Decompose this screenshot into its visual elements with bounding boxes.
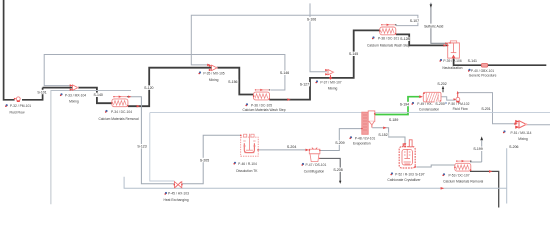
wire S-123 from DC-104 top down to heat exchanger HX-103 [128,97,175,184]
svg-text:Heat Exchanging: Heat Exchanging [163,198,188,202]
svg-text:Calcium Materials Wash Step: Calcium Materials Wash Step [242,108,285,112]
label DC-104 [98,110,138,121]
wire S-202 vent stub above condenser [442,87,444,93]
wire DC-107 bottom outlet down to bottom edge [470,171,499,207]
wire S-146 recycle from DC-105 top to mixer P-33 [44,55,285,91]
node S-123 [137,144,148,149]
label V-106 [439,59,462,70]
svg-text:Condensation: Condensation [419,108,440,112]
label HX-101 condenser [411,102,439,112]
label HX-103 [163,192,189,202]
wire mixer P-51 outlet to right edge [526,124,550,126]
label mixer P-33 [60,93,86,103]
mixer P-37 / MX-107 [325,69,334,80]
label R-103 [387,172,421,182]
wire pump P-32 outlet to node S-101 riser [22,88,43,100]
arrow DC-107 bottom outlet [489,170,492,173]
svg-text:S-197: S-197 [415,173,424,177]
arrow S-127 leaving DC-105 [287,98,290,101]
wire pale section line left drop to HX-103 [150,113,175,181]
condenser HX-101 (P-49) [423,92,441,102]
filter DC-101 (P-38) [379,24,396,35]
svg-text:S-120: S-120 [144,86,153,90]
arrow on S-206 bottom return line [441,187,445,190]
node S-199 [473,147,484,152]
pump P-50 top outlet stub [457,93,459,98]
node S-145 [348,52,359,57]
arrow S-204 into centrifuge [306,149,309,152]
mixer P-51 / MX-114 [515,120,527,129]
arrow into R-103 top from S-152 [404,143,407,146]
svg-text:Generic Procedure: Generic Procedure [469,74,497,78]
svg-text:P-50 / PM-102: P-50 / PM-102 [448,102,469,106]
wire feed stream into pump P-32 [4,0,15,100]
small box GBX-101 (P-40) [481,64,487,68]
label mixer P-35 [198,71,224,82]
mixer P-35 / MX-105 [209,65,218,72]
svg-text:Fluid Flow: Fluid Flow [9,111,25,115]
svg-text:S-145: S-145 [349,52,358,56]
wire S-205 from HX-103 up to dissolution tank R-104 [182,135,241,184]
svg-text:Sulfuric Acid: Sulfuric Acid [424,24,443,28]
svg-text:P-35 / MX-105: P-35 / MX-105 [203,72,224,76]
wire R-103 outlet S-197 to DC-107 [416,165,454,167]
node S-205 [199,158,210,163]
node S-141 [467,59,478,64]
svg-text:P-38 / DC-101: P-38 / DC-101 [378,37,399,41]
svg-text:Centrifugation: Centrifugation [304,170,325,174]
wire S-201 from pump P-50 to mixer P-51 [458,93,517,124]
wire S-206 long return line along bottom [124,148,507,203]
svg-text:S-106: S-106 [307,18,316,22]
wire S-106 feed from top into mixer P-37 [310,3,327,71]
svg-text:S-204: S-204 [287,145,296,149]
node S-202 [437,82,448,87]
wire S-208 from centrifuge DS-101 down [320,158,340,181]
filter DC-107 (P-53) [454,160,471,171]
label EV-101 [349,136,375,145]
svg-text:P-33 / MX-104: P-33 / MX-104 [65,93,86,97]
label GBX-101 [468,69,497,78]
svg-text:Cathionate Crystallizer: Cathionate Crystallizer [387,178,421,182]
svg-text:Evaporation: Evaporation [353,142,371,146]
svg-text:S-141: S-141 [468,59,477,63]
svg-text:Calcium Materials Removal: Calcium Materials Removal [98,117,138,121]
node S-206 [508,144,519,149]
svg-text:Mixing: Mixing [328,86,338,90]
svg-text:S-202: S-202 [437,82,446,86]
wire S-107 recycle from DC-101 top to mixer P-35 [191,15,418,65]
svg-text:S-200: S-200 [435,102,444,106]
svg-text:S-208: S-208 [333,168,342,172]
arrow S-199 pointing up [480,136,483,140]
svg-text:P-48 / EV-101: P-48 / EV-101 [355,136,376,140]
wire S-204 from R-104 to centrifuge DS-101 [258,149,306,151]
filter DC-104 (P-34) [111,96,128,107]
node S-152 [378,132,389,137]
arrow S-202 pointing up [442,86,444,89]
label DC-105 [242,103,285,112]
wire pale stub from mixer P-33 down to bottom edge [51,91,131,205]
svg-text:P-40 / GBX-101: P-40 / GBX-101 [471,69,494,73]
wire DC-104 outlet S-120 to mixer P-35 [128,68,211,107]
wire condenser outlet into pump P-50 [441,97,455,100]
arrow S-201 into mixer P-51 [514,123,517,126]
node S-120 [143,85,154,90]
node S-200 [435,102,446,107]
svg-text:S-107: S-107 [410,19,419,23]
pump P-50 / PM-102 [454,91,460,103]
wire mixer P-35 outlet S-156 to DC-105 inlet [217,68,254,95]
wire S-145 from mixer P-37 up into DC-101 inlet [330,30,379,78]
node S-127 [299,82,310,87]
svg-text:Neutralization: Neutralization [442,66,462,70]
node S-146 [279,71,290,76]
label R-104 [233,162,258,173]
svg-text:P-49 / HX-: P-49 / HX- [417,102,432,106]
svg-text:P-37 / MX-107: P-37 / MX-107 [320,81,341,85]
red flow arrows on streams [128,42,518,189]
svg-text:S-194: S-194 [400,102,409,106]
svg-text:P-52 / R-103: P-52 / R-103 [395,173,414,177]
label MX-114 [503,130,532,141]
node S-140 [93,93,104,98]
wire V-106 outlet S-141 through GBX-101 to right [454,58,547,65]
svg-text:Dissolution TK: Dissolution TK [236,169,258,173]
svg-text:S-101: S-101 [37,90,46,94]
arrow S-152 out of EV-101 [383,127,386,130]
node S-101 [37,90,48,95]
svg-text:S-205: S-205 [200,158,209,162]
node S-128 [400,37,410,41]
svg-text:Fluid Flow: Fluid Flow [453,107,469,111]
svg-text:Mixing: Mixing [69,99,79,103]
svg-text:S-123: S-123 [137,145,146,149]
wire S-209 from centrifuge up into evaporator EV-101 [320,129,362,151]
label DS-101 [301,163,326,174]
arrow S-107 into mixer P-35 [207,64,210,67]
filter DC-105 (P-36) [253,89,270,100]
label mixer P-37 [315,80,341,90]
node S-209 [334,140,345,145]
wire DC-105 outlet S-127 to node below mixer P-37 [269,78,330,100]
arrow sulfuric acid feed top [430,4,433,7]
arrow S-120 leaving DC-104 [137,105,140,108]
crystallizer R-103 (P-52) [399,140,416,168]
wire S-101 into mixer P-33 [43,87,73,89]
svg-text:Calcium Materials Wash Step: Calcium Materials Wash Step [367,43,410,47]
svg-text:P-39 / V-106: P-39 / V-106 [443,59,461,63]
arrow sulfuric acid into V-106 top [445,42,448,44]
vessel V-106 neutralizer [447,41,460,58]
svg-text:P-47 / DS-101: P-47 / DS-101 [305,163,326,167]
svg-text:Calcium Materials Removal: Calcium Materials Removal [443,179,483,183]
evaporator EV-101 (P-48) column and drum [361,111,376,134]
node S-189 [388,117,399,122]
mixer P-33 / MX-104 [70,84,79,91]
label DC-107 [442,173,483,183]
wire mixer P-33 outlet S-140 to DC-104 inlet [78,88,112,104]
label pump P-32 [5,104,31,114]
wire pale section line across middle [150,112,550,114]
arrow S-208 pointing down [339,181,341,184]
svg-text:P-34 / DC-104: P-34 / DC-104 [111,110,132,114]
centrifuge DS-101 (P-47) [309,148,321,162]
svg-text:S-152: S-152 [378,133,387,137]
dissolution tank R-104 (P-46) [240,134,259,156]
arrow into V-106 inlet [443,44,446,47]
svg-text:S-201: S-201 [481,107,490,111]
svg-text:Mixing: Mixing [209,78,219,82]
wire S-152 from evaporator drum to crystallizer R-103 [372,128,405,146]
wire DC-101 outlet S-128 to vessel V-106 [396,34,448,45]
svg-text:S-128: S-128 [400,37,409,41]
wire green vapor S-189/S-194 from EV-101 to condenser [375,97,420,115]
arrow S-123 at DC-104 top [128,96,131,98]
svg-text:P-45 / HX-103: P-45 / HX-103 [168,192,189,196]
svg-text:P-36 / DC-105: P-36 / DC-105 [251,103,272,107]
wire sulfuric acid feed into V-106 top [431,3,449,44]
svg-text:P-46 / R-104: P-46 / R-104 [238,162,257,166]
svg-text:P-32 / PM-101: P-32 / PM-101 [10,104,31,108]
node S-194 [399,102,410,107]
node S-208 [333,168,344,173]
label DC-101 [367,36,410,47]
svg-text:S-209: S-209 [335,141,344,145]
svg-text:S-140: S-140 [94,93,103,97]
node S-107 [409,18,420,23]
node S-106 [306,17,317,22]
node Sulfuric Acid [421,24,447,29]
svg-text:S-206: S-206 [509,145,518,149]
svg-text:P-53 / DC-107: P-53 / DC-107 [448,173,469,177]
wire S-199 stub from DC-107 top upward [470,141,482,163]
node S-204 [286,144,297,149]
svg-text:S-127: S-127 [300,83,309,87]
dark arrows [339,4,483,184]
svg-text:S-199: S-199 [473,147,482,151]
pump P-32 / PM-101 [14,97,20,102]
svg-text:S-189: S-189 [389,118,398,122]
node S-201 [480,107,492,112]
node S-156 [227,79,238,84]
svg-text:S-146: S-146 [280,71,289,75]
svg-text:P-51 / MX-114: P-51 / MX-114 [510,131,531,135]
arrow green into condenser [419,95,423,98]
node S-197 [414,172,425,177]
svg-text:Mixing: Mixing [518,137,528,141]
svg-text:S-156: S-156 [228,80,237,84]
label PM-102 [444,102,470,111]
heat exchanger HX-103 (P-45) [174,182,183,188]
